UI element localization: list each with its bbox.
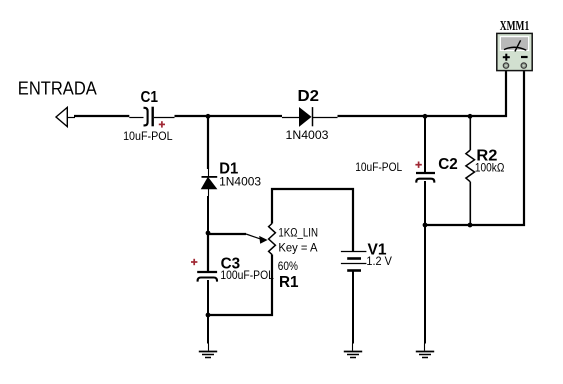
wire D2 to multimeter plus (338, 69, 507, 117)
svg-text:R1: R1 (279, 274, 299, 291)
polarity plus of C2 (415, 162, 421, 168)
wire input to C1 (74, 116, 144, 118)
wire multimeter minus to bottom rail (425, 69, 524, 225)
wire D1 to wiper node (207, 196, 209, 232)
wire node D to ground (424, 225, 427, 351)
svg-text:1KΩ_LIN: 1KΩ_LIN (278, 225, 318, 239)
svg-text:C2: C2 (438, 156, 458, 173)
svg-text:C1: C1 (141, 89, 159, 106)
node G junction C3 bottom (206, 313, 211, 318)
diode D2 (300, 107, 338, 126)
svg-text:1.2 V: 1.2 V (366, 254, 392, 268)
resistor R2 (466, 117, 475, 226)
polarity plus of C1 (159, 121, 165, 127)
wire node G to ground (207, 315, 210, 351)
svg-text:60%: 60% (278, 259, 298, 273)
diode D1 (202, 169, 218, 196)
polarity plus of C3 (191, 259, 197, 265)
ground GND3 (416, 352, 434, 358)
wire node A to D2 (208, 116, 300, 118)
potentiometer R1 (259, 224, 275, 255)
wire wiper node to C3 (207, 232, 209, 271)
battery V1 (341, 252, 367, 271)
multimeter XMM1 (497, 33, 532, 70)
wire pot top to V1 (272, 189, 353, 252)
ground GND1 (199, 352, 217, 358)
wire node B to C2 (424, 117, 426, 173)
svg-text:XMM1: XMM1 (500, 19, 529, 34)
wire pot bottom to node G (208, 255, 272, 316)
svg-text:100kΩ: 100kΩ (475, 161, 505, 175)
wire node A down to D1 (207, 115, 209, 169)
svg-text:Key = A: Key = A (278, 240, 317, 254)
node A junction (206, 114, 211, 119)
capacitor C3 (197, 272, 217, 282)
wire C2 to node D (424, 181, 426, 225)
wire C3 to node G (207, 280, 209, 315)
svg-text:10uF-POL: 10uF-POL (355, 160, 402, 174)
wire C1 to node A (154, 116, 209, 118)
node D junction C2 bottom (423, 223, 428, 228)
svg-text:D2: D2 (298, 88, 320, 105)
ground GND2 (344, 352, 362, 358)
node C junction R2 top (468, 114, 473, 119)
svg-text:ENTRADA: ENTRADA (18, 79, 97, 99)
input terminal arrow (56, 107, 75, 126)
svg-text:10uF-POL: 10uF-POL (123, 129, 173, 143)
svg-text:1N4003: 1N4003 (286, 128, 329, 142)
svg-text:100uF-POL: 100uF-POL (220, 268, 274, 282)
node B junction C2 top (423, 114, 428, 119)
capacitor C2 (416, 173, 435, 183)
wire V1 to ground (352, 271, 355, 351)
node E junction R2 bottom (468, 223, 473, 228)
wire wiper tap (208, 234, 263, 240)
node F wiper junction (206, 231, 211, 236)
svg-text:1N4003: 1N4003 (219, 175, 261, 189)
capacitor C1 (144, 107, 153, 127)
